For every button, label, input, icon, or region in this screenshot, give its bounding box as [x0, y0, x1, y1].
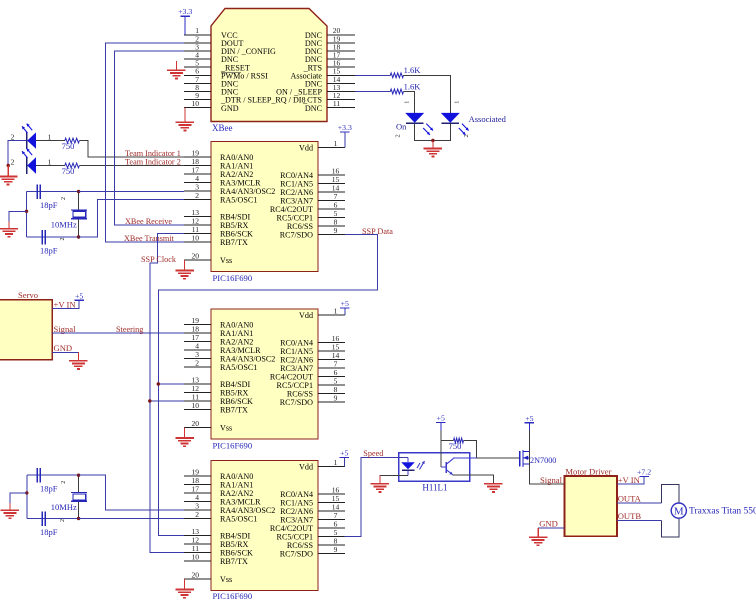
wire crystal2 bottom rail to U4 pin2 — [79, 518, 184, 520]
U4 pin 14 (RC2/AN6) — [318, 510, 345, 512]
XBee pin 12 (_CTS) — [327, 99, 355, 101]
svg-text:9: 9 — [334, 226, 338, 235]
svg-text:750: 750 — [62, 166, 75, 176]
XBee pin 3 (DIN / _CONFIG) — [184, 50, 211, 52]
U3 pin 7 (RC3/AN7) — [318, 367, 345, 369]
U3 pin 3 (RA4/AN3/OSC2) — [184, 358, 211, 360]
U3 pin 11 (RB6/SCK) — [184, 400, 211, 402]
ground below left LEDs — [7, 166, 9, 177]
wire Speed U4.RC5 to H11L1 — [344, 457, 408, 536]
XBee pin 11 (DNC) — [327, 107, 355, 109]
svg-text:2N7000: 2N7000 — [530, 456, 556, 465]
svg-text:+5: +5 — [75, 291, 83, 300]
svg-text:GND: GND — [54, 343, 73, 353]
U3 pin 13 (RB4/SDI) — [184, 383, 211, 385]
U4 pin 3 (RA4/AN3/OSC2) — [184, 509, 211, 511]
XBee pin 19 (DNC) — [327, 42, 355, 44]
PIC16F690 U4 body — [211, 461, 318, 591]
junction SSP Data at U3.13 — [157, 382, 160, 385]
XBee pin 5 (_RESET) — [184, 66, 211, 68]
U3 pin 15 (RC1/AN5) — [318, 350, 345, 352]
wire R5 to output node — [464, 441, 477, 459]
svg-text:PIC16F690: PIC16F690 — [213, 273, 253, 283]
U2 pin 20 (Vss) — [184, 259, 211, 261]
ground at Motor Driver — [537, 528, 539, 537]
svg-text:2: 2 — [11, 157, 15, 166]
svg-text:2: 2 — [195, 358, 199, 367]
svg-text:1: 1 — [334, 306, 338, 315]
svg-text:Vss: Vss — [220, 424, 232, 433]
resistor R3 750 — [65, 138, 80, 143]
XBee pin 13 (ON / _SLEEP) — [327, 91, 355, 93]
junction crystal bottom — [77, 235, 80, 238]
svg-text:750: 750 — [62, 141, 75, 151]
U3 pin 8 (RC6/SS) — [318, 393, 345, 395]
wire to crystal ground — [9, 211, 27, 221]
wire crystal bottom rail — [27, 236, 79, 238]
U2 pin 17 (RA2/AN2) — [184, 173, 211, 175]
wire SSP Clock to U3 pin11 — [150, 400, 184, 402]
XBee pin 20 (DNC) — [327, 34, 355, 36]
svg-text:9: 9 — [334, 393, 338, 402]
U4 pin 10 (RB7/TX) — [184, 560, 211, 562]
junction crystal ground branch — [25, 210, 28, 213]
svg-text:Vdd: Vdd — [299, 463, 313, 472]
svg-text:1: 1 — [334, 139, 338, 148]
svg-text:M: M — [674, 506, 684, 518]
U3 pin 12 (RB5/RX) — [184, 392, 211, 394]
wire H11L1 collector to node — [453, 457, 476, 459]
U4 pin 6 (RC4/C2OUT) — [318, 527, 345, 529]
U2 pin 3 (RA4/AN3/OSC2) — [184, 190, 211, 192]
ground at H11L1 input — [379, 476, 381, 484]
wire crystal left vertical — [26, 192, 28, 238]
svg-text:10: 10 — [192, 401, 200, 410]
XBee pin 9 (_DTR / SLEEP_RQ / DI8) — [184, 99, 211, 101]
svg-text:2: 2 — [11, 132, 15, 141]
U4 pin 19 (RA0/AN0) — [184, 475, 211, 477]
svg-text:PIC16F690: PIC16F690 — [213, 441, 253, 451]
U2 pin 16 (RC0/AN4) — [318, 174, 345, 176]
U2 pin 1 (Vdd) — [318, 147, 345, 149]
wire +5 to U3 Vdd — [344, 308, 346, 315]
wire to crystal ground — [10, 493, 27, 503]
LED D4 Team Indicator 2 — [26, 157, 28, 174]
wire crystal left vertical — [26, 475, 28, 518]
XBee module U1 — [211, 9, 327, 122]
svg-text:18pF: 18pF — [40, 200, 58, 210]
svg-text:GND: GND — [221, 104, 239, 113]
XBee pin 8 (DNC) — [184, 91, 211, 93]
junction crystal top — [77, 190, 80, 193]
XBee pin 7 (DNC) — [184, 82, 211, 84]
svg-text:1: 1 — [453, 101, 460, 104]
wire XBee pin15 to R1 — [355, 74, 390, 76]
svg-text:1: 1 — [404, 101, 411, 104]
U3 pin 9 (RC7/SDO) — [318, 401, 345, 403]
ground at U4 Vss — [184, 579, 186, 590]
svg-text:2: 2 — [61, 481, 67, 484]
svg-text:11: 11 — [333, 99, 340, 108]
XBee pin 6 (PWMo / RSSI) — [184, 74, 211, 76]
svg-text:SSP Data: SSP Data — [362, 227, 393, 236]
U4 pin 20 (Vss) — [184, 578, 211, 580]
power +3.3 at XBee VCC — [180, 15, 190, 17]
U3 pin 10 (RB7/TX) — [184, 409, 211, 411]
wire Q1 source to Motor Driver Signal — [529, 452, 564, 485]
wire XBee DOUT to U2 RB7/TX (XBee Transmit) — [105, 43, 184, 242]
wire XBee pin13 to R2 — [355, 91, 390, 93]
svg-text:Traxxas Titan 550 Mo: Traxxas Titan 550 Mo — [689, 507, 756, 517]
U4 pin 8 (RC6/SS) — [318, 544, 345, 546]
U2 pin 18 (RA1/AN1) — [184, 165, 211, 167]
ground at crystal — [9, 503, 11, 510]
wire +3.3 to U2 Vdd — [344, 132, 346, 148]
svg-text:Vdd: Vdd — [299, 311, 313, 320]
XBee pin 4 (DNC) — [184, 58, 211, 60]
ground at U3 Vss — [184, 428, 186, 439]
U4 pin 1 (Vdd) — [318, 466, 345, 468]
optocoupler U5 H11L1 body — [399, 453, 470, 482]
svg-text:2: 2 — [60, 519, 66, 522]
svg-text:2: 2 — [463, 134, 470, 137]
svg-text:Associated: Associated — [469, 114, 507, 124]
junction crystal bottom — [77, 517, 80, 520]
wire H11L1 base pullup — [440, 441, 442, 467]
capacitor C4 18pF — [41, 511, 43, 526]
svg-text:Vdd: Vdd — [299, 144, 313, 153]
ground at crystal — [8, 221, 10, 228]
crystal Y1 10MHz — [78, 192, 80, 210]
svg-text:+3.3: +3.3 — [178, 7, 192, 16]
wire SSP Clock net U2.11 - U3.11 - U4.11 — [150, 234, 184, 553]
wire D4 anode to R4 — [36, 165, 65, 167]
svg-text:2: 2 — [61, 197, 67, 200]
LED D2 Associated — [441, 113, 460, 123]
svg-text:RC7/SDO: RC7/SDO — [280, 231, 313, 240]
U4 pin 7 (RC3/AN7) — [318, 519, 345, 521]
svg-text:20: 20 — [192, 570, 200, 579]
wire SSP Data net U2.9 - U3.13 - U4.13 — [158, 235, 377, 536]
power +7.2 at Motor Driver — [639, 475, 649, 477]
U2 pin 8 (RC6/SS) — [318, 225, 345, 227]
XBee pin 16 (_RTS) — [327, 66, 355, 68]
svg-text:9: 9 — [334, 545, 338, 554]
H11L1 light arrow — [420, 461, 425, 470]
resistor R5 750 — [441, 440, 454, 442]
wire H11L1 emitter to ground — [453, 475, 494, 484]
wire +3.3 to XBee pin 1 — [184, 16, 186, 35]
svg-text:SSP Clock: SSP Clock — [141, 255, 177, 264]
LED D1 On — [405, 113, 424, 123]
svg-text:Servo: Servo — [18, 290, 38, 300]
motor M1 connector bracket — [661, 485, 679, 504]
svg-text:10MHz: 10MHz — [51, 502, 77, 512]
U2 pin 2 (RA5/OSC1) — [184, 199, 211, 201]
power +5 at R5 — [436, 422, 446, 424]
XBee pin 17 (DNC) — [327, 58, 355, 60]
PIC16F690 U3 body — [211, 309, 318, 439]
U4 pin 18 (RA1/AN1) — [184, 484, 211, 486]
XBee pin 10 (GND) — [184, 107, 211, 109]
wire crystal1 top rail to U2 pin3 — [79, 191, 184, 193]
svg-text:+7.2: +7.2 — [637, 467, 651, 476]
U2 pin 19 (RA0/AN0) — [184, 156, 211, 158]
wire LED cathodes to ground — [415, 124, 451, 141]
wire R2 to LED D1 On — [404, 92, 415, 113]
U3 pin 16 (RC0/AN4) — [318, 342, 345, 344]
Servo sheet symbol — [0, 300, 52, 360]
svg-text:+V IN: +V IN — [54, 299, 77, 309]
svg-text:1: 1 — [48, 132, 52, 141]
H11L1 phototransistor — [445, 462, 447, 473]
junction crystal top — [77, 474, 80, 477]
svg-text:GND: GND — [539, 519, 558, 529]
XBee pin 1 (VCC) — [184, 34, 211, 36]
svg-text:RA5/OSC1: RA5/OSC1 — [220, 196, 257, 205]
svg-text:750: 750 — [449, 441, 462, 451]
U2 pin 15 (RC1/AN5) — [318, 183, 345, 185]
U2 pin 7 (RC3/AN7) — [318, 200, 345, 202]
svg-text:18pF: 18pF — [40, 246, 58, 256]
U2 pin 10 (RB7/TX) — [184, 241, 211, 243]
capacitor C3 18pF — [36, 468, 38, 483]
U2 pin 9 (RC7/SDO) — [318, 234, 345, 236]
wire XBee DIN to U2 RB5/RX (XBee Receive) — [115, 51, 184, 225]
svg-text:RB7/TX: RB7/TX — [220, 557, 248, 566]
svg-text:18pF: 18pF — [40, 484, 58, 494]
svg-text:1: 1 — [334, 458, 338, 467]
svg-text:PIC16F690: PIC16F690 — [213, 591, 253, 600]
wire R4 to U2 pin18 — [79, 165, 184, 167]
power +5 at Servo — [74, 299, 84, 301]
U2 pin 11 (RB6/SCK) — [184, 233, 211, 235]
U3 pin 14 (RC2/AN6) — [318, 359, 345, 361]
svg-text:+5: +5 — [341, 299, 349, 308]
svg-text:Signal: Signal — [540, 475, 563, 485]
wire crystal1 bottom rail to U2 pin2 — [79, 200, 184, 238]
U3 pin 5 (RC5/CCP1) — [318, 384, 345, 386]
U4 pin 16 (RC0/AN4) — [318, 493, 345, 495]
wire crystal top rail — [27, 191, 79, 193]
svg-text:Speed: Speed — [363, 449, 383, 458]
wire +5 to R5 — [440, 423, 442, 431]
wire node to Q1 gate — [477, 457, 520, 459]
svg-text:+5: +5 — [437, 414, 445, 423]
resistor R4 750 — [65, 163, 80, 168]
wire +5 to U4 Vdd — [343, 458, 345, 467]
U4 pin 12 (RB5/RX) — [184, 543, 211, 545]
svg-text:OUTA: OUTA — [618, 494, 642, 504]
wire SSP Data to U3 pin13 — [158, 383, 184, 385]
svg-text:2: 2 — [60, 238, 66, 241]
power +5 at U3 Vdd — [340, 307, 350, 309]
power +5 at Q1 drain — [525, 422, 535, 424]
capacitor C2 18pF — [41, 230, 43, 245]
LED D3 Team Indicator 1 — [26, 132, 28, 149]
U3 pin 17 (RA2/AN2) — [184, 341, 211, 343]
svg-text:2: 2 — [195, 510, 199, 519]
U2 pin 14 (RC2/AN6) — [318, 191, 345, 193]
svg-text:OUTB: OUTB — [618, 511, 642, 521]
svg-text:+5: +5 — [525, 414, 533, 423]
XBee pin 15 (Associate) — [327, 74, 355, 76]
svg-text:Vss: Vss — [220, 575, 232, 584]
ground below LEDs — [432, 141, 434, 149]
svg-text:10: 10 — [192, 233, 200, 242]
U3 pin 19 (RA0/AN0) — [184, 324, 211, 326]
svg-text:+5: +5 — [340, 449, 348, 458]
svg-text:Vss: Vss — [220, 256, 232, 265]
U4 pin 2 (RA5/OSC1) — [184, 518, 211, 520]
U3 pin 1 (Vdd) — [318, 314, 345, 316]
XBee pin 14 (DNC) — [327, 82, 355, 84]
H11L1 internal LED — [401, 462, 415, 469]
svg-text:H11L1: H11L1 — [422, 483, 447, 493]
junction SSP Clock at U3.11 — [148, 399, 151, 402]
U4 pin 5 (RC5/CCP1) — [318, 536, 345, 538]
U2 pin 12 (RB5/RX) — [184, 224, 211, 226]
U4 pin 4 (RA3/MCLR) — [184, 501, 211, 503]
ground at XBee pin 5 — [175, 61, 177, 70]
svg-text:Motor Driver: Motor Driver — [565, 467, 611, 477]
svg-text:RC7/SDO: RC7/SDO — [280, 550, 313, 559]
wire crystal2 top rail to U4 pin3 — [79, 475, 184, 510]
svg-text:10: 10 — [192, 99, 200, 108]
svg-text:10: 10 — [192, 552, 200, 561]
wire LED cathodes to ground (left) — [8, 141, 26, 166]
U3 pin 4 (RA3/MCLR) — [184, 349, 211, 351]
svg-text:1.6K: 1.6K — [404, 81, 422, 91]
U4 pin 13 (RB4/SDI) — [184, 535, 211, 537]
U4 pin 11 (RB6/SCK) — [184, 552, 211, 554]
ground at U2 Vss — [184, 260, 186, 271]
svg-text:RA5/OSC1: RA5/OSC1 — [220, 515, 257, 524]
junction crystal ground branch — [25, 491, 28, 494]
U2 pin 6 (RC4/C2OUT) — [318, 208, 345, 210]
U3 pin 2 (RA5/OSC1) — [184, 366, 211, 368]
junction left LED ground node — [7, 164, 10, 167]
ground at XBee pin 10 — [184, 108, 186, 123]
wire +5 to Q1 drain — [528, 423, 530, 431]
svg-text:XBee Transmit: XBee Transmit — [124, 234, 175, 243]
svg-text:+3.3: +3.3 — [338, 123, 352, 132]
power +5 at U4 Vdd — [340, 457, 350, 459]
resistor R1 1.6K — [390, 73, 403, 78]
svg-text:On: On — [396, 122, 407, 132]
power +3.3 at U2 Vdd — [340, 131, 350, 133]
svg-text:Team Indicator 2: Team Indicator 2 — [125, 158, 181, 167]
svg-text:RA5/OSC1: RA5/OSC1 — [220, 363, 257, 372]
junction LED ground node — [431, 139, 434, 142]
svg-text:10MHz: 10MHz — [51, 219, 77, 229]
ground at Servo — [77, 353, 79, 361]
XBee pin 2 (DOUT) — [184, 42, 211, 44]
svg-text:DNC: DNC — [305, 104, 322, 113]
ground at H11L1 output — [484, 483, 503, 485]
svg-text:XBee: XBee — [212, 123, 233, 133]
svg-text:20: 20 — [192, 251, 200, 260]
U3 pin 18 (RA1/AN1) — [184, 332, 211, 334]
svg-text:1.6K: 1.6K — [404, 65, 422, 75]
XBee pin 18 (DNC) — [327, 50, 355, 52]
wire H11L1 cathode to ground — [380, 476, 408, 484]
svg-text:RB7/TX: RB7/TX — [220, 238, 248, 247]
wire R1 to LED D2 Associated — [404, 75, 451, 113]
wire crystal top rail — [27, 474, 79, 476]
svg-text:XBee Receive: XBee Receive — [125, 217, 172, 226]
U4 pin 9 (RC7/SDO) — [318, 553, 345, 555]
svg-text:Steering: Steering — [116, 325, 143, 334]
U4 pin 17 (RA2/AN2) — [184, 492, 211, 494]
crystal Y2 10MHz — [78, 475, 80, 492]
motor M1 Traxxas Titan 550 — [671, 503, 686, 518]
Motor Driver sheet symbol — [564, 476, 617, 536]
wire R3 to U2 pin19 — [79, 141, 184, 157]
resistor R2 1.6K — [390, 89, 403, 94]
wire crystal bottom rail — [27, 518, 79, 520]
wire D3 anode to R3 — [36, 140, 65, 142]
svg-text:2: 2 — [195, 191, 199, 200]
svg-text:18pF: 18pF — [40, 527, 58, 537]
svg-text:1: 1 — [48, 157, 52, 166]
svg-text:RC7/SDO: RC7/SDO — [280, 398, 313, 407]
U3 pin 6 (RC4/C2OUT) — [318, 376, 345, 378]
transistor Q1 2N7000 — [519, 451, 521, 467]
U2 pin 4 (RA3/MCLR) — [184, 182, 211, 184]
U4 pin 15 (RC1/AN5) — [318, 502, 345, 504]
U2 pin 5 (RC5/CCP1) — [318, 217, 345, 219]
svg-text:RB7/TX: RB7/TX — [220, 406, 248, 415]
svg-text:20: 20 — [192, 419, 200, 428]
PIC16F690 U2 body — [211, 142, 318, 272]
svg-text:2: 2 — [394, 134, 401, 137]
capacitor C1 18pF — [36, 184, 38, 199]
U3 pin 20 (Vss) — [184, 427, 211, 429]
U2 pin 13 (RB4/SDI) — [184, 216, 211, 218]
